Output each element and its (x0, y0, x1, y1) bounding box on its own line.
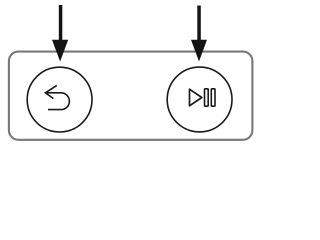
undo / return icon (45, 85, 69, 109)
play-pause icon: pause bar 2 (211, 89, 215, 106)
play-pause icon: triangle (190, 89, 202, 106)
down arrow 1 head (52, 40, 68, 62)
panel (rounded rectangle) (9, 52, 253, 140)
down arrow 2 shaft (197, 6, 201, 43)
down arrow 2 head (191, 40, 207, 62)
down arrow 1 shaft (59, 5, 63, 42)
play-pause icon: pause bar 1 (205, 89, 209, 106)
button circle 1 (undo) (27, 67, 92, 132)
button circle 2 (play/pause) (167, 67, 232, 132)
